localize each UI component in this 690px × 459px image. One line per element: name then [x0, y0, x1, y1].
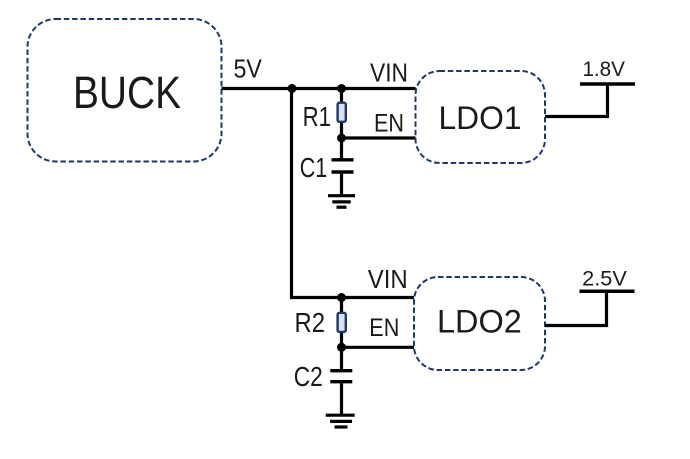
svg-text:EN: EN: [374, 110, 404, 138]
wire node B to LDO1 VIN pin: [342, 87, 416, 90]
power rail bar 1.8V: [580, 82, 635, 86]
svg-text:5V: 5V: [234, 56, 262, 84]
svg-text:1.8V: 1.8V: [582, 58, 625, 81]
wire LDO2 output: [545, 291, 607, 325]
resistor R2: [338, 298, 346, 348]
capacitor C2: [330, 347, 352, 415]
node E junction (R1/C1/EN1): [337, 134, 346, 143]
svg-text:C1: C1: [300, 152, 328, 183]
svg-text:LDO2: LDO2: [437, 304, 522, 340]
block BUCK: [28, 19, 222, 162]
wire node A down to LDO2 branch corner: [290, 89, 293, 298]
block LDO2: [414, 277, 545, 370]
node F junction (R2/C2/EN2): [337, 343, 346, 352]
svg-text:C2: C2: [294, 361, 323, 392]
svg-text:R1: R1: [303, 101, 331, 132]
wire node E to LDO1 EN pin: [342, 136, 416, 139]
wire node D to LDO2 VIN pin: [342, 296, 415, 299]
ground GND1: [328, 196, 355, 208]
block LDO1: [416, 71, 546, 163]
svg-text:R2: R2: [295, 307, 326, 338]
resistor R1: [338, 89, 346, 139]
svg-text:BUCK: BUCK: [73, 67, 181, 118]
node B junction: [337, 84, 346, 93]
wire corner to node D: [290, 296, 342, 299]
power rail bar 2.5V: [580, 290, 635, 294]
capacitor C1: [332, 138, 354, 196]
wire node A to node B: [292, 87, 342, 90]
node D junction: [337, 293, 346, 302]
node A junction: [288, 84, 297, 93]
svg-text:2.5V: 2.5V: [582, 268, 627, 291]
svg-text:LDO1: LDO1: [439, 100, 522, 136]
svg-text:EN: EN: [369, 314, 399, 342]
svg-text:VIN: VIN: [368, 264, 408, 294]
wire LDO1 output: [545, 84, 608, 117]
wire node F to LDO2 EN pin: [342, 346, 415, 349]
svg-text:VIN: VIN: [370, 58, 408, 88]
wire BUCK output to node A: [222, 87, 293, 90]
ground GND2: [326, 415, 355, 427]
